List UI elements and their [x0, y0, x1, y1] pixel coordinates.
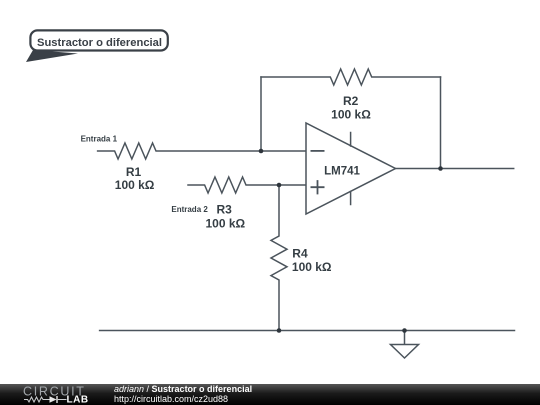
- svg-text:Entrada 1: Entrada 1: [81, 135, 118, 144]
- svg-text:Sustractor o diferencial: Sustractor o diferencial: [37, 37, 162, 49]
- svg-text:100 kΩ: 100 kΩ: [331, 108, 371, 122]
- svg-text:Entrada 2: Entrada 2: [171, 205, 208, 214]
- svg-text:R3: R3: [217, 203, 233, 217]
- svg-text:LAB: LAB: [67, 395, 89, 405]
- svg-text:R2: R2: [343, 94, 359, 108]
- svg-text:100 kΩ: 100 kΩ: [205, 217, 245, 231]
- svg-text:100 kΩ: 100 kΩ: [115, 178, 155, 192]
- svg-text:R4: R4: [292, 246, 308, 260]
- svg-text:R1: R1: [126, 165, 142, 179]
- svg-text:LM741: LM741: [324, 166, 360, 178]
- svg-text:100 kΩ: 100 kΩ: [292, 260, 332, 274]
